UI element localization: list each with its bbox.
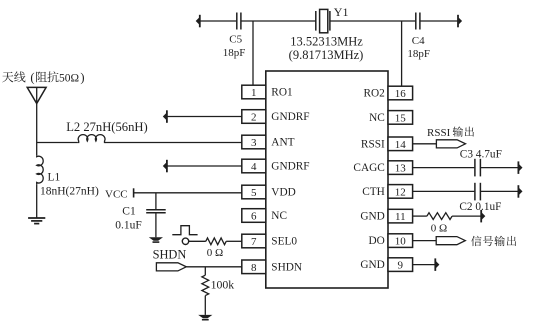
capacitor C4 [407,13,430,61]
pin name NC [369,112,385,124]
svg-text:10: 10 [395,236,407,248]
wire [155,213,157,238]
pin name GNDRF [271,161,309,173]
svg-text:18nH(27nH): 18nH(27nH) [40,186,99,198]
wire [241,20,316,22]
pin name CAGC [353,162,384,174]
svg-text:11: 11 [395,211,406,223]
wire [167,165,242,167]
pin 14 box [388,137,413,151]
wire [413,143,437,145]
pin name GNDRF [271,111,309,123]
pin 1 box [242,85,266,99]
ground terminal top-right [458,15,462,27]
pin 15 box [388,111,413,125]
svg-text:RO2: RO2 [363,88,385,100]
pin 11 box [388,209,413,223]
svg-text:12: 12 [395,186,406,198]
svg-text:GND: GND [360,259,384,271]
pin name RO1 [271,87,292,99]
label Y1 frequency [289,34,364,61]
resistor R-SEL0 0ohm [206,238,226,259]
node SEL0 open terminal [182,238,188,244]
svg-text:15: 15 [395,112,407,124]
pulse input symbol [172,226,197,235]
pin 7 box [242,234,266,248]
svg-text:NC: NC [369,112,385,124]
svg-text:(9.81713MHz): (9.81713MHz) [289,48,364,62]
wire [452,215,481,217]
pin name RSSI [361,138,385,150]
label signal output [471,236,516,246]
pin name SEL0 [271,236,297,248]
capacitor C5 [223,13,246,60]
svg-text:50Ω: 50Ω [59,72,79,84]
svg-text:C3 4.7uF: C3 4.7uF [460,148,502,160]
svg-text:CAGC: CAGC [353,162,384,174]
pin 9 box [388,258,413,272]
svg-text:0 Ω: 0 Ω [431,223,447,235]
ground [198,315,212,320]
svg-text:SHDN: SHDN [271,261,302,273]
svg-text:9: 9 [398,260,404,272]
ground terminal pin4 [163,160,167,173]
svg-text:C1: C1 [122,205,136,217]
svg-text:Y1: Y1 [334,5,349,19]
pin 16 box [388,86,413,100]
wire [413,167,475,169]
svg-text:4: 4 [251,161,257,173]
svg-text:0 Ω: 0 Ω [207,247,223,259]
wire [413,190,475,192]
svg-text:6: 6 [251,211,257,223]
capacitor C2 [459,183,501,213]
wire [106,142,242,144]
pin 6 box [242,209,266,223]
svg-text:2: 2 [251,112,257,124]
svg-text:3: 3 [251,137,257,149]
wire [413,215,427,217]
pin 10 box [388,234,413,248]
pin 2 box [242,110,266,124]
ground terminal pin9 [435,258,439,271]
svg-text:18pF: 18pF [407,48,430,60]
svg-text:SHDN: SHDN [153,247,187,261]
wire [413,240,437,242]
svg-text:16: 16 [395,88,407,100]
svg-text:7: 7 [251,236,257,248]
pin name SHDN [271,261,302,273]
svg-text:L1: L1 [48,172,61,184]
pin name DO [368,235,384,247]
svg-text:ANT: ANT [271,137,294,149]
pin name VDD [271,187,295,199]
wire [134,192,242,194]
antenna ANT1 [27,87,46,142]
pin 3 box [242,135,266,149]
svg-text:SEL0: SEL0 [271,236,297,248]
wire [480,167,518,169]
svg-text:13.52313MHz: 13.52313MHz [290,34,363,48]
svg-text:100k: 100k [211,278,235,292]
node pin16 junction [401,21,403,86]
net flag SHDN [156,263,186,271]
pin name CTH [362,186,385,198]
ground [149,237,163,242]
svg-text:CTH: CTH [362,186,385,198]
op-amp U1 MICRF002 body [266,71,388,288]
pin 8 box [242,260,266,274]
svg-text:GNDRF: GNDRF [271,161,309,173]
capacitor C3 [460,148,502,176]
svg-text:C5: C5 [229,34,242,46]
svg-text:RSSI: RSSI [361,138,385,150]
wire [200,20,236,22]
svg-text:5: 5 [251,187,257,199]
svg-text:RO1: RO1 [271,87,292,99]
node pin1 junction [252,21,254,85]
wire [36,184,38,217]
wire [226,240,242,242]
ground terminal pin13 [518,161,522,174]
wire [330,20,415,22]
pin name GND [360,259,384,271]
svg-text:C4: C4 [412,35,425,47]
wire [189,240,206,242]
capacitor C1 [115,205,165,231]
svg-text:(: ( [30,70,34,84]
ground terminal pin11 [481,210,485,223]
net flag signal output [436,237,465,245]
svg-text:14: 14 [395,139,407,151]
svg-text:0.1uF: 0.1uF [115,220,142,232]
wire [480,190,518,192]
svg-text:GND: GND [360,211,384,223]
wire [186,266,242,268]
pin 13 box [388,161,413,175]
pin 4 box [242,159,266,173]
inductor L2 [66,120,148,142]
pin name RO2 [363,88,385,100]
pin 5 box [242,185,266,199]
ground terminal pin12 [518,185,522,198]
svg-text:8: 8 [251,262,257,274]
svg-text:1: 1 [251,87,257,99]
wire [204,296,206,315]
crystal Y1 [316,5,349,33]
resistor R2 0ohm [427,213,452,235]
svg-text:18pF: 18pF [223,47,246,59]
label SHDN [153,247,187,261]
resistor R1 100k [202,275,234,295]
svg-text:NC: NC [271,210,287,222]
pin name GND [360,211,384,223]
wire [420,20,458,22]
svg-text:13: 13 [395,163,407,175]
svg-text:DO: DO [368,235,384,247]
inductor L1 [37,155,99,197]
label antenna 50 ohm [2,70,84,84]
wire [36,143,38,156]
wire [413,264,436,266]
svg-text:RSSI: RSSI [427,127,451,139]
pin name ANT [271,137,294,149]
wire [204,267,206,275]
svg-text:L2 27nH(56nH): L2 27nH(56nH) [66,120,148,134]
svg-text:): ) [80,70,84,84]
svg-text:GNDRF: GNDRF [271,111,309,123]
ground [28,218,45,224]
ground terminal top-left [196,15,200,27]
svg-text:VCC: VCC [105,188,128,200]
pin name NC [271,210,287,222]
svg-text:VDD: VDD [271,187,295,199]
power VCC [105,188,134,200]
wire [167,116,242,118]
label RSSI output [427,126,474,138]
wire [37,142,77,144]
pin 12 box [388,185,413,199]
wire [155,193,157,210]
ground terminal pin2 [163,110,167,123]
net flag RSSI output [436,140,465,148]
